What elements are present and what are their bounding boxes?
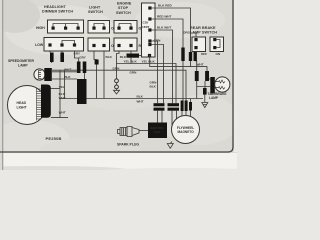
- svg-text:BLK: BLK: [150, 85, 157, 89]
- wire: dimmer low t1 down: [50, 51, 52, 63]
- wire: dimmer low t3 down: [75, 51, 79, 64]
- svg-text:YEL: YEL: [59, 85, 65, 89]
- wire: rear brake t2 down: [195, 52, 197, 72]
- wire: light switch t2 down to bus: [103, 51, 105, 99]
- wire: BLK lower lead: [52, 78, 77, 80]
- wire: CDI BLK WHT: [152, 30, 173, 103]
- svg-text:WHT: WHT: [197, 62, 204, 66]
- connector: coil multipin: [154, 103, 165, 111]
- connector: tail lamp pair B: [205, 71, 209, 81]
- headlight dimmer switch HIGH box: [36, 20, 84, 33]
- wire: engine stop t1 to ground chain: [117, 51, 120, 79]
- svg-text:WHT: WHT: [59, 96, 66, 100]
- svg-text:UNIT: UNIT: [142, 25, 149, 29]
- svg-text:OFF: OFF: [201, 52, 207, 56]
- svg-text:LAMP: LAMP: [209, 96, 219, 100]
- light switch ON box: [88, 21, 117, 34]
- svg-text:STOP: STOP: [118, 6, 129, 10]
- svg-text:BLK: BLK: [106, 55, 113, 59]
- connector: gry pair b: [83, 62, 87, 74]
- wire: coil feeds: [158, 111, 163, 123]
- wire: WHT line to tail lamp: [150, 57, 207, 71]
- wire: gry pair to bus: [84, 73, 86, 99]
- svg-text:SWITCH: SWITCH: [116, 11, 131, 15]
- engine stop switch RUN box: [114, 38, 147, 51]
- paper background: [0, 0, 237, 170]
- svg-text:ON: ON: [216, 52, 221, 56]
- left page edge shadow: [0, 0, 2, 170]
- connector: brake switch lower: [194, 52, 197, 61]
- connector: dimmer pair 1: [50, 53, 54, 63]
- svg-text:BLK: BLK: [64, 75, 71, 79]
- wire: connector to CDI bottom terminal: [139, 55, 150, 57]
- connector: tail ground: [203, 88, 207, 95]
- wire: light switch t1 down to bus: [94, 51, 97, 99]
- svg-text:GRY: GRY: [74, 51, 82, 55]
- svg-text:LIGHT: LIGHT: [89, 6, 101, 10]
- connector: red wht mid: [181, 48, 184, 62]
- svg-text:GRN: GRN: [130, 70, 138, 74]
- wire: CDI GRN: [152, 41, 158, 103]
- rear brake switch OFF box: [192, 37, 207, 56]
- connector: dimmer pair 2: [60, 53, 64, 63]
- svg-text:WHT: WHT: [137, 99, 144, 103]
- svg-text:BLK WHT: BLK WHT: [157, 26, 171, 30]
- svg-text:BLK: BLK: [137, 94, 144, 98]
- svg-text:HEAD: HEAD: [17, 101, 27, 105]
- connector: tail lamp pair A: [195, 71, 199, 81]
- wire: dimmer low t2 down: [61, 51, 63, 53]
- light switch label: [88, 6, 103, 15]
- svg-text:LAMP SWITCH: LAMP SWITCH: [190, 31, 217, 35]
- wire: lamp connectors to bulb: [197, 79, 211, 99]
- svg-text:HIGH: HIGH: [36, 26, 45, 30]
- wire: headlight WHT bottom stub: [51, 117, 68, 119]
- svg-text:SWITCH: SWITCH: [88, 10, 103, 14]
- svg-text:ORG: ORG: [183, 31, 191, 35]
- connector: harness block: [77, 79, 87, 104]
- svg-text:SPARK PLUG: SPARK PLUG: [117, 142, 139, 146]
- ground: chain with bullet connectors: [114, 79, 120, 94]
- wire: CDI RED WHT: [152, 19, 184, 48]
- svg-text:HEADLIGHT: HEADLIGHT: [44, 5, 67, 9]
- svg-text:LIGHT: LIGHT: [17, 105, 28, 109]
- svg-text:YEL BLK: YEL BLK: [124, 59, 138, 63]
- wire: GRN long line: [52, 70, 186, 100]
- svg-text:GRN: GRN: [154, 38, 162, 42]
- wire: main bus BLK WHT: [60, 99, 203, 103]
- connector: org wire: [189, 52, 192, 61]
- connector: magneto bullet pair: [181, 101, 192, 112]
- svg-text:LOW: LOW: [35, 43, 44, 47]
- svg-text:GRN: GRN: [113, 66, 121, 70]
- diagram frame: [0, 0, 233, 152]
- wire: spark plug lead: [139, 130, 148, 132]
- svg-text:BLK RED: BLK RED: [158, 4, 173, 8]
- CDI unit box: [142, 3, 156, 57]
- scan mottling: [5, 5, 115, 55]
- wire: speedometer lamp lead: [52, 71, 77, 73]
- connector: light switch wire: [95, 60, 99, 65]
- svg-text:WHT: WHT: [59, 111, 66, 115]
- tail brake lamp bulb: [210, 77, 230, 94]
- svg-text:REAR BRAKE: REAR BRAKE: [190, 26, 216, 30]
- connector: magneto multipin: [168, 103, 180, 111]
- rear brake switch ON box: [210, 37, 224, 56]
- wire: tail lamp ground: [204, 95, 206, 103]
- rear brake lamp switch label: [190, 26, 217, 35]
- tail brake lamp label: [208, 92, 227, 100]
- speedometer lamp: [34, 68, 52, 81]
- svg-text:COIL: COIL: [154, 130, 161, 134]
- engine stop switch label: [116, 2, 132, 15]
- ground: tail lamp: [202, 103, 208, 108]
- wire: CDI BLK RED to brake switch: [152, 8, 197, 38]
- ignition coil: [148, 123, 167, 139]
- engine stop switch OFF box: [114, 21, 146, 34]
- connector: engine stop to CDI: [127, 54, 140, 58]
- headlight connector block: [41, 85, 51, 118]
- svg-text:MAGNETO: MAGNETO: [178, 130, 195, 134]
- svg-text:RED WHT: RED WHT: [157, 15, 172, 19]
- headlight pin comb: [37, 88, 42, 121]
- wire: headlight YEL stub: [51, 88, 61, 90]
- headlight dimmer switch LOW box: [35, 38, 84, 52]
- wire: headlight vertical wht: [64, 70, 66, 98]
- svg-text:WHT: WHT: [64, 67, 71, 71]
- wire: engine stop t2 to connector: [130, 51, 132, 54]
- headlight: [8, 85, 51, 125]
- wire: magneto feeds: [172, 111, 191, 126]
- wire: CDI aux: [152, 45, 164, 104]
- svg-text:PE250B: PE250B: [46, 136, 62, 141]
- wire: headlight vertical yel: [59, 70, 61, 117]
- connector: gry pair a: [77, 62, 81, 74]
- ground: magneto: [167, 142, 173, 149]
- light switch OFF box: [88, 38, 119, 51]
- svg-text:YEL BLK: YEL BLK: [142, 60, 156, 64]
- svg-text:GRY: GRY: [79, 56, 87, 60]
- speedometer lamp label: [8, 59, 35, 67]
- svg-text:LAMP: LAMP: [18, 63, 28, 67]
- spark plug: [118, 127, 140, 137]
- wire: YEL BLK line: [117, 58, 177, 104]
- svg-text:DIMMER SWITCH: DIMMER SWITCH: [42, 10, 73, 14]
- svg-text:SPEEDOMETER: SPEEDOMETER: [8, 59, 35, 63]
- headlight dimmer switch label: [42, 5, 73, 14]
- svg-text:ENGINE: ENGINE: [117, 2, 132, 6]
- flywheel magneto: [172, 116, 200, 144]
